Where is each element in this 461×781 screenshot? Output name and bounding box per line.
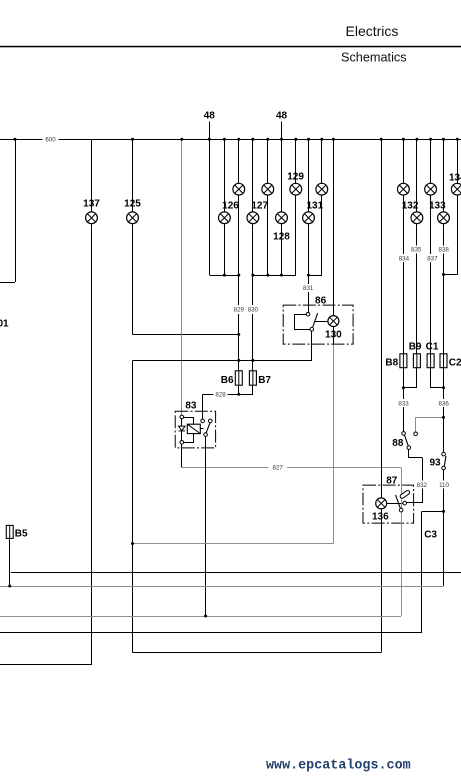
svg-text:838: 838 [439, 247, 450, 254]
svg-text:133: 133 [429, 200, 446, 211]
wire row joining B8 B9 [403, 387, 417, 389]
svg-text:830: 830 [248, 307, 259, 314]
wire bus 600 (horizontal supply rail) [0, 139, 461, 141]
svg-text:126: 126 [222, 200, 239, 211]
svg-text:132: 132 [402, 200, 419, 211]
wire lamp 130 feed column [333, 139, 335, 315]
wire switch 86 output down [311, 331, 313, 360]
switch 93 lever [444, 456, 446, 466]
svg-text:134: 134 [449, 172, 461, 183]
wire 828 row [203, 394, 253, 419]
wire bottom row y=572 [11, 572, 461, 574]
wire 837 column [430, 139, 432, 387]
wire fuse B5 down [9, 538, 11, 586]
fuse B6 [235, 371, 242, 385]
switch 86 internal bracket [294, 314, 310, 329]
wire switch 86 to lamp 130 [315, 321, 328, 323]
svg-text:110: 110 [439, 482, 449, 489]
wire lamp 129 column [295, 139, 297, 275]
svg-text:Schematics: Schematics [341, 50, 407, 64]
svg-text:B9: B9 [409, 341, 422, 352]
header rule [0, 46, 461, 48]
svg-text:833: 833 [398, 400, 409, 407]
node 93 contact bottom [442, 466, 446, 470]
node 86 contact B [310, 327, 314, 331]
svg-text:86: 86 [315, 296, 327, 307]
lamp (upper, unlabeled) [262, 183, 274, 195]
node 86 contact A [306, 313, 310, 317]
svg-text:125: 125 [124, 198, 141, 209]
wire from bus down at x=15 to left edge [0, 139, 16, 282]
fuse B9 [413, 354, 420, 368]
lamp 126 [219, 212, 231, 224]
wire bottom row y=632.6 (C3 continuation) [0, 632, 422, 634]
svg-text:87: 87 [386, 476, 398, 487]
wire relay 83 feed column [181, 139, 183, 415]
wire lamp 136 to switch 87 [387, 503, 403, 505]
svg-text:832: 832 [417, 482, 428, 489]
lamp 134 [451, 183, 461, 195]
node 83 terminal coil top [180, 415, 184, 419]
svg-text:835: 835 [411, 247, 422, 254]
node 83 switch NO contact [209, 419, 213, 423]
wire upper lamp column x=321.8 [321, 139, 323, 275]
relay box 83 (dashed) [175, 411, 215, 448]
wire relay 83 diode branch [181, 419, 183, 441]
svg-text:B7: B7 [258, 375, 271, 386]
wire bottom row to lamp 137 [0, 664, 92, 666]
svg-text:B5: B5 [15, 529, 28, 540]
svg-text:829: 829 [234, 307, 245, 314]
wire 829 column [238, 139, 240, 394]
wire 834 column [403, 139, 405, 431]
wire row joining C1 C2 [431, 387, 444, 389]
node 48 first wire [209, 122, 211, 276]
lamp 127 [247, 212, 259, 224]
lamp (upper, unlabeled right) [316, 183, 328, 195]
lamp 131 [303, 212, 315, 224]
fuse C2 [440, 354, 447, 368]
wire lamp sub-bus left segment [209, 275, 239, 277]
svg-text:130: 130 [325, 329, 342, 340]
connector C3 wires [422, 511, 444, 632]
svg-text:83: 83 [185, 400, 197, 411]
svg-text:127: 127 [251, 200, 268, 211]
lamp 128 [276, 212, 288, 224]
svg-text:C1: C1 [426, 341, 439, 352]
wire 830 column [252, 139, 254, 394]
svg-text:C2: C2 [449, 357, 461, 368]
switch box 87 (dashed) [363, 485, 414, 523]
wire bottom row y=586 [0, 586, 444, 588]
lamp (upper, feeds C1) [425, 183, 437, 195]
wire lamp sub-bus right segment [309, 275, 322, 277]
wire lamp sub-bus middle segment [253, 275, 296, 277]
wire 827 horizontal [182, 467, 401, 469]
node 88 contact lower [407, 446, 411, 450]
fuse B7 [249, 371, 256, 385]
svg-text:88: 88 [392, 438, 404, 449]
node 83 switch input [201, 419, 205, 423]
switch 87 lever [396, 495, 401, 508]
svg-text:827: 827 [273, 465, 284, 472]
relay 83 coil wiring [184, 417, 194, 443]
lamp 130 in box 86 [328, 316, 339, 327]
relay 83 coil to armature stub [200, 428, 203, 430]
svg-text:831: 831 [303, 285, 314, 292]
wire lamp 130 return column [333, 327, 335, 544]
wire upper lamp column x=267.8 [267, 139, 269, 275]
lamp (upper, feeds B6) [233, 183, 245, 195]
fuse B5 [6, 525, 13, 538]
relay box 86 (dashed) [283, 305, 353, 344]
junction dots on bus 600 [14, 138, 459, 141]
svg-text:600: 600 [45, 137, 56, 144]
node 83 switch common [204, 433, 208, 437]
wire relay 83 switch output column [205, 437, 207, 617]
svg-text:B6: B6 [221, 375, 234, 386]
diode D1 in relay 83 [179, 426, 186, 431]
node 87 contact right [403, 501, 407, 505]
wire lamp 136 feed column [381, 139, 383, 498]
node 93 contact top [442, 452, 446, 456]
node 87 contact lever [399, 508, 403, 512]
lamp (upper, feeds B8) [398, 183, 410, 195]
wire return column x=132.5 (from node 86 switch) [132, 360, 134, 652]
relay 83 coil [187, 424, 200, 433]
wire 827 through switch 87 column [401, 467, 403, 616]
relay 83 switch lever [206, 423, 210, 433]
svg-text:129: 129 [287, 171, 304, 182]
lamp 133 [438, 212, 450, 224]
svg-text:Electrics: Electrics [346, 23, 399, 39]
switch 86 lever [313, 313, 318, 327]
wire lamp 137 column [91, 139, 93, 665]
wire lamp 131 column [308, 139, 310, 312]
wire lamp 126 column [224, 139, 226, 275]
svg-text:B8: B8 [385, 357, 398, 368]
node 48 second wire and lamp 128 column [281, 122, 283, 276]
svg-text:836: 836 [439, 400, 450, 407]
wire 835 column [416, 139, 418, 387]
node 88 contact right [414, 432, 418, 436]
fuse C1 [427, 354, 434, 368]
wire row from switch 86 to x=132.5 [133, 360, 312, 362]
switch 88 lever [404, 435, 408, 446]
svg-text:128: 128 [273, 231, 290, 242]
svg-text:48: 48 [204, 111, 216, 122]
svg-text:C3: C3 [424, 529, 437, 540]
wire bottom row 125/136 returns [133, 652, 382, 654]
node 88 contact left [402, 432, 406, 436]
wire lamp 125 column [132, 139, 134, 334]
lamp 137 [86, 212, 98, 224]
svg-text:828: 828 [215, 392, 226, 399]
wire bottom row y=616 (wire 827 continuation) [0, 616, 401, 618]
svg-text:137: 137 [83, 198, 100, 209]
svg-text:93: 93 [429, 458, 441, 469]
wire lamp 136 return column [381, 509, 383, 653]
fuse B8 [400, 354, 407, 368]
wire row joining 130 return to x=132.5 column [133, 543, 334, 545]
node 83 terminal coil bottom [180, 441, 184, 445]
lamp 129 [290, 183, 302, 195]
wire row lamp 134 to 133 column [444, 274, 458, 276]
svg-text:131: 131 [306, 200, 323, 211]
switch 88 output [407, 450, 423, 503]
wire row 88 right contact to 836 [416, 417, 444, 432]
wire lamp 134 column [457, 139, 459, 274]
wire lamp125 to B6 column [133, 334, 239, 336]
junction dots at wire tees [8, 273, 445, 618]
lamp 125 [127, 212, 139, 224]
lamp 136 in box 87 [376, 498, 387, 509]
wire relay 83 coil return down [181, 444, 183, 467]
svg-text:01: 01 [0, 319, 9, 330]
switch 87 thermal element [399, 490, 410, 499]
svg-text:837: 837 [427, 255, 438, 262]
svg-text:136: 136 [372, 511, 389, 522]
wire 838/836 column [443, 139, 445, 586]
svg-text:834: 834 [399, 255, 410, 262]
lamp 132 [411, 212, 423, 224]
svg-text:48: 48 [276, 111, 288, 122]
svg-text:www.epcatalogs.com: www.epcatalogs.com [266, 758, 411, 773]
